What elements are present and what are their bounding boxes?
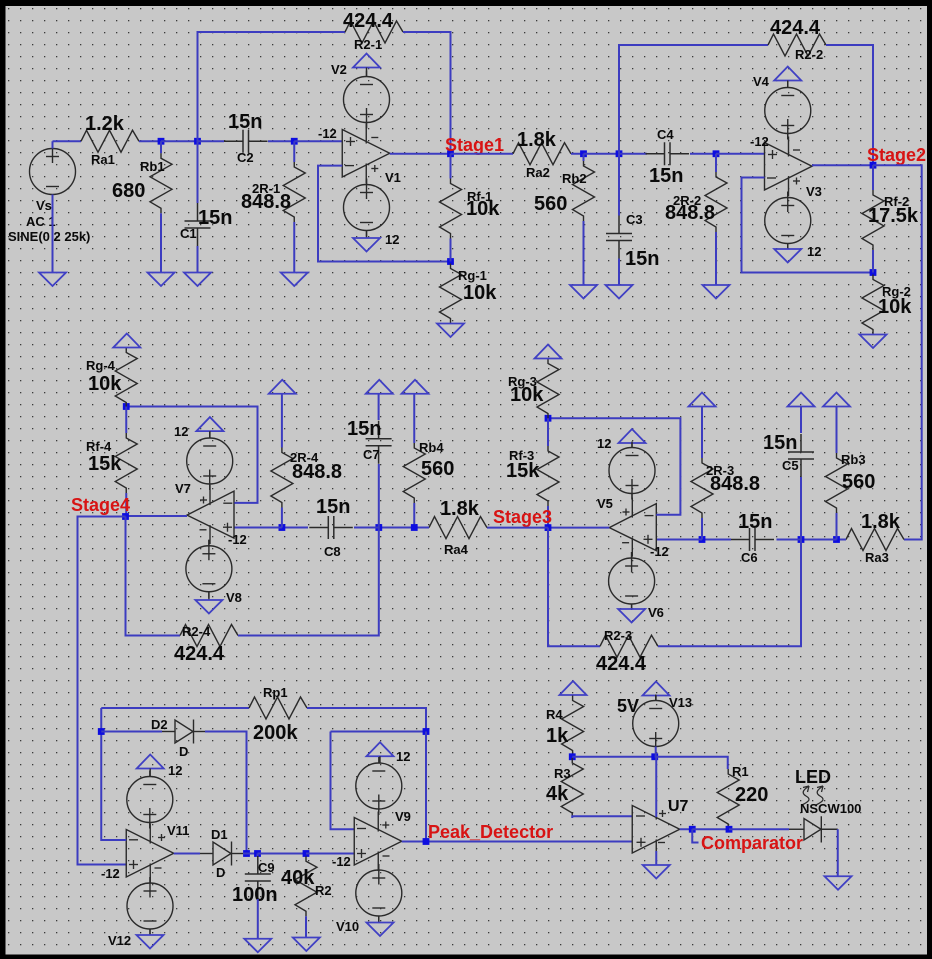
svg-text:12: 12 bbox=[807, 244, 821, 259]
wire 2R-4 node to op-amp U4 +in bbox=[234, 527, 282, 529]
svg-text:10k: 10k bbox=[878, 296, 912, 318]
svg-text:Ra2: Ra2 bbox=[526, 165, 550, 180]
op-amp U4 V- pin marker bbox=[200, 529, 207, 531]
junction R3/R4 node bbox=[569, 753, 576, 760]
wire Stage1 to Rf-1 bbox=[450, 154, 452, 179]
svg-text:220: 220 bbox=[735, 784, 768, 806]
op-amp U7 V+ pin marker bbox=[659, 813, 666, 815]
op-amp U7 +input marker bbox=[637, 841, 646, 843]
op-amp U4 V+ pin marker bbox=[200, 499, 207, 501]
svg-text:C8: C8 bbox=[324, 544, 341, 559]
diode D1 bbox=[200, 842, 243, 866]
svg-text:Rf-4: Rf-4 bbox=[86, 439, 112, 454]
power flag above Rg-3 bbox=[535, 345, 562, 359]
ground below C3 bbox=[606, 285, 633, 299]
svg-text:Stage3: Stage3 bbox=[493, 507, 552, 527]
resistor R2 bbox=[295, 856, 317, 916]
svg-text:Stage2: Stage2 bbox=[867, 145, 926, 165]
svg-text:424.4: 424.4 bbox=[343, 10, 394, 32]
svg-text:Stage1: Stage1 bbox=[445, 135, 504, 155]
wire R3 to U7 -in bbox=[572, 816, 632, 818]
svg-text:LED: LED bbox=[795, 767, 831, 787]
wire node to C3 bbox=[618, 154, 620, 216]
wire main to Rb4 bbox=[413, 503, 415, 528]
power flag above 2R-4 bbox=[269, 380, 296, 394]
ground below V8 bbox=[195, 600, 222, 614]
svg-text:15n: 15n bbox=[316, 496, 350, 518]
capacitor C7 bbox=[366, 421, 392, 464]
svg-text:Ra3: Ra3 bbox=[865, 550, 889, 565]
svg-text:V5: V5 bbox=[597, 496, 613, 511]
wire V7 top stub bbox=[209, 431, 211, 437]
wire feedback top run bbox=[331, 731, 427, 733]
voltage source V4 bbox=[765, 82, 811, 140]
svg-text:680: 680 bbox=[112, 180, 145, 202]
junction storage node (D2) bbox=[243, 850, 250, 857]
svg-text:Rb3: Rb3 bbox=[841, 452, 866, 467]
power flag above 2R-3 bbox=[689, 393, 716, 407]
power flag above Rg-4 bbox=[113, 334, 140, 348]
svg-text:15n: 15n bbox=[228, 111, 262, 133]
ground below V1 bbox=[353, 238, 380, 252]
wire V1 bottom stub bbox=[366, 231, 368, 239]
svg-text:NSCW100: NSCW100 bbox=[800, 801, 861, 816]
resistor Rp1 bbox=[249, 697, 307, 719]
resistor 2R-4 bbox=[271, 448, 293, 508]
svg-text:15n: 15n bbox=[198, 207, 232, 229]
svg-text:10k: 10k bbox=[88, 373, 122, 395]
wire V13 to node bbox=[655, 747, 657, 757]
wire Vs to Ra1 bbox=[53, 140, 82, 142]
op-amp U3 V- pin marker bbox=[622, 542, 629, 544]
op-amp U6 (peak detector output) bbox=[354, 812, 402, 872]
svg-text:1.8k: 1.8k bbox=[517, 129, 557, 151]
power flag above V2 bbox=[353, 54, 380, 68]
wire node up to 2R-3 bbox=[701, 518, 703, 540]
svg-text:848.8: 848.8 bbox=[710, 473, 760, 495]
power flag above V4 bbox=[774, 67, 801, 81]
svg-text:Stage4: Stage4 bbox=[71, 495, 130, 515]
wire node up to C5 bbox=[800, 477, 802, 540]
wire 2R-4 to power flag bbox=[281, 394, 283, 448]
wire node B up to R2-1 bbox=[198, 32, 346, 141]
junction Rb3 node bbox=[833, 536, 840, 543]
wire Stage3 down to R2-3 bbox=[548, 528, 600, 647]
wire U3 output to Stage3 node bbox=[548, 527, 609, 529]
wire U1 -in feedback loop bbox=[318, 166, 451, 262]
op-amp U6 V+ pin marker bbox=[382, 824, 389, 826]
svg-text:12: 12 bbox=[168, 763, 182, 778]
resistor Rg-3 bbox=[537, 359, 559, 419]
wire R2 node to U6 +in bbox=[306, 853, 354, 855]
svg-text:-12: -12 bbox=[228, 532, 247, 547]
wire V4 top stub bbox=[787, 81, 789, 89]
ground below R2 bbox=[293, 938, 320, 952]
junction D2 branch node bbox=[98, 728, 105, 735]
junction 2R-4 node bbox=[279, 524, 286, 531]
svg-text:15k: 15k bbox=[88, 453, 122, 475]
resistor Ra4 bbox=[429, 517, 487, 539]
svg-text:C1: C1 bbox=[180, 226, 197, 241]
svg-text:1.8k: 1.8k bbox=[861, 511, 901, 533]
svg-text:-12: -12 bbox=[750, 134, 769, 149]
resistor Rf-3 bbox=[537, 446, 559, 506]
wire R4 node to V13 node bbox=[572, 756, 655, 758]
wire Vs top lead bbox=[52, 141, 54, 148]
capacitor C8 bbox=[309, 516, 353, 539]
svg-text:D2: D2 bbox=[151, 717, 168, 732]
wire Stage2 to Rf-2 bbox=[872, 165, 874, 190]
svg-text:C9: C9 bbox=[258, 860, 275, 875]
resistor R3 bbox=[561, 758, 583, 818]
voltage source V5 bbox=[609, 442, 655, 500]
resistor Rb4 bbox=[403, 443, 425, 503]
svg-text:15n: 15n bbox=[625, 248, 659, 270]
resistor Rg-4 bbox=[115, 348, 137, 408]
svg-text:SINE(0 2 25k): SINE(0 2 25k) bbox=[8, 229, 90, 244]
wire D2 down to storage node bbox=[205, 732, 247, 854]
resistor Ra1 bbox=[81, 130, 139, 152]
voltage source V6 bbox=[609, 552, 655, 610]
wire Ra2 to Rb2 node bbox=[571, 153, 584, 155]
wire node to D2 bbox=[101, 731, 162, 733]
junction R2 node bbox=[303, 850, 310, 857]
wire U4 -in up to Rg-4 node bbox=[126, 407, 257, 503]
svg-text:848.8: 848.8 bbox=[292, 461, 342, 483]
wire node B to C2 bbox=[198, 140, 225, 142]
junction node A (Rb1 top) bbox=[158, 138, 165, 145]
svg-text:1.8k: 1.8k bbox=[440, 498, 480, 520]
op-amp U5 -input marker bbox=[129, 839, 138, 841]
power flag above V9 bbox=[367, 742, 394, 756]
svg-text:V1: V1 bbox=[385, 170, 401, 185]
voltage source V12 bbox=[127, 877, 173, 935]
svg-text:848.8: 848.8 bbox=[241, 191, 291, 213]
svg-text:424.4: 424.4 bbox=[770, 17, 821, 39]
ground below C9 bbox=[244, 939, 271, 953]
wire R2-2 to Stage2 node bbox=[826, 45, 873, 165]
wire D1 to C9 node bbox=[243, 853, 258, 855]
power flag above C7 bbox=[366, 380, 393, 394]
wire V12 bottom stub bbox=[149, 929, 151, 935]
wire V13 top stub bbox=[655, 696, 657, 701]
svg-text:560: 560 bbox=[421, 458, 454, 480]
wire C9 node down bbox=[257, 854, 259, 858]
wire net label stub bbox=[692, 829, 698, 842]
wire Rf-1 to node bbox=[450, 239, 452, 262]
wire U7 output bbox=[680, 828, 693, 830]
wire R2-3 up to C5 node bbox=[658, 540, 801, 647]
svg-text:V7: V7 bbox=[175, 481, 191, 496]
svg-text:C4: C4 bbox=[657, 127, 674, 142]
svg-text:Ra1: Ra1 bbox=[91, 152, 115, 167]
capacitor C2 bbox=[224, 130, 268, 153]
wire output to R1 node bbox=[692, 828, 729, 830]
resistor Rb2 bbox=[573, 161, 595, 221]
wire 2R-3 to power flag bbox=[701, 407, 703, 459]
svg-text:V10: V10 bbox=[336, 919, 359, 934]
op-amp U3 +input marker bbox=[644, 538, 653, 540]
wire feedback down to U6 -in bbox=[331, 732, 355, 830]
power flag above C5 bbox=[788, 393, 815, 407]
svg-text:R2-2: R2-2 bbox=[795, 47, 823, 62]
ground below C1 bbox=[184, 273, 211, 287]
op-amp U5 V- pin marker bbox=[155, 867, 162, 869]
wire Vs to ground bbox=[52, 195, 54, 273]
junction R1/LED node bbox=[726, 826, 733, 833]
svg-text:-12: -12 bbox=[101, 866, 120, 881]
op-amp U3 V+ pin marker bbox=[623, 511, 630, 513]
wire C3 to ground bbox=[618, 259, 620, 286]
resistor Rg-2 bbox=[862, 275, 884, 335]
wire U4 output to Stage4 node bbox=[126, 515, 188, 517]
wire V5 top stub bbox=[631, 443, 633, 448]
svg-text:R3: R3 bbox=[554, 766, 571, 781]
svg-text:Rg-4: Rg-4 bbox=[86, 358, 116, 373]
svg-text:AC 1: AC 1 bbox=[26, 214, 56, 229]
wire to Rb2 bbox=[583, 154, 585, 161]
voltage source V2 bbox=[344, 71, 390, 129]
wire node up to 2R-4 bbox=[281, 508, 283, 528]
wire Rb3 node to C5 node bbox=[801, 539, 837, 541]
wire C9 to ground bbox=[257, 899, 259, 939]
resistor Rg-1 bbox=[440, 264, 462, 324]
resistor 2R-2 bbox=[705, 172, 727, 232]
svg-text:V8: V8 bbox=[226, 590, 242, 605]
svg-text:D: D bbox=[216, 865, 225, 880]
junction C3/feedback node bbox=[616, 150, 623, 157]
wire V13 node to U7 V+ bbox=[655, 757, 657, 817]
ground below Rb1 bbox=[148, 273, 175, 287]
op-amp U7 -input marker bbox=[636, 815, 645, 817]
svg-text:848.8: 848.8 bbox=[665, 202, 715, 224]
junction Rg-4/Rf-4 node bbox=[123, 403, 130, 410]
wire node to 2R-2 bbox=[715, 154, 717, 172]
op-amp U5 V+ pin marker bbox=[158, 837, 165, 839]
wire U5 output to D1 bbox=[174, 853, 200, 855]
voltage source V9 bbox=[356, 757, 402, 815]
resistor R2-2 bbox=[768, 34, 826, 56]
junction C9 node bbox=[254, 850, 261, 857]
op-amp U3 (stage3) bbox=[609, 498, 656, 557]
wire U2 output to Stage2 node bbox=[812, 164, 873, 166]
diode D2 bbox=[162, 720, 205, 744]
wire V2 top stub bbox=[366, 68, 368, 78]
wire R2-4 up to C7 node bbox=[238, 528, 379, 636]
resistor R1 bbox=[717, 769, 739, 829]
voltage source V7 bbox=[187, 432, 233, 490]
wire V13 node to R1 bbox=[655, 757, 728, 769]
resistor R2-1 bbox=[345, 21, 403, 43]
junction Stage4 node bbox=[122, 513, 129, 520]
svg-text:12: 12 bbox=[385, 232, 399, 247]
resistor 2R-3 bbox=[691, 458, 713, 518]
ground below V6 bbox=[618, 609, 645, 623]
svg-text:10k: 10k bbox=[466, 198, 500, 220]
junction node C (2R-1 top) bbox=[291, 138, 298, 145]
op-amp U7 (comparator) bbox=[632, 800, 680, 860]
resistor Rf-2 bbox=[862, 190, 884, 250]
wire U2 -in feedback loop bbox=[742, 178, 874, 273]
capacitor C4 bbox=[646, 142, 690, 165]
wire Rf-3 to Stage3 node bbox=[547, 506, 549, 528]
svg-text:15n: 15n bbox=[738, 511, 772, 533]
svg-text:U7: U7 bbox=[668, 798, 689, 815]
wire Rb2 to ground bbox=[583, 221, 585, 285]
wire V10 bottom stub bbox=[378, 916, 380, 923]
junction Rb4 node bbox=[411, 524, 418, 531]
wire Stage4 down to R2-4 bbox=[126, 517, 181, 636]
wire C5 node to C6 bbox=[777, 539, 802, 541]
op-amp U2 V+ pin marker bbox=[793, 180, 800, 182]
ground below Rb2 bbox=[570, 285, 597, 299]
resistor Rf-4 bbox=[115, 433, 137, 493]
op-amp U2 (stage2) bbox=[765, 137, 813, 197]
junction 2R-3 node bbox=[699, 536, 706, 543]
wire node up to Rb3 bbox=[836, 513, 838, 540]
svg-text:17.5k: 17.5k bbox=[868, 205, 919, 227]
wire Stage1 to Ra2 bbox=[451, 153, 514, 155]
svg-text:10k: 10k bbox=[463, 282, 497, 304]
svg-text:R2: R2 bbox=[315, 883, 332, 898]
svg-text:C2: C2 bbox=[237, 150, 254, 165]
wire Stage4 node down to peak detector +in bbox=[78, 517, 127, 865]
op-amp U3 -input marker bbox=[645, 515, 654, 517]
wire to Rp1 bbox=[101, 707, 249, 709]
LED D3 bbox=[789, 816, 838, 842]
power flag above V5 bbox=[619, 429, 646, 443]
junction C5 node bbox=[798, 536, 805, 543]
wire C2 to node C bbox=[268, 140, 294, 142]
wire 2R-2 to ground bbox=[715, 232, 717, 285]
resistor R2-3 bbox=[600, 635, 658, 657]
junction Stage2 node bbox=[870, 162, 877, 169]
svg-text:5V: 5V bbox=[617, 696, 639, 716]
svg-text:15n: 15n bbox=[649, 165, 683, 187]
wire R1 to output node bbox=[727, 828, 730, 830]
resistor Rf-1 bbox=[440, 179, 462, 239]
capacitor C5 bbox=[788, 434, 814, 477]
op-amp U4 +input marker bbox=[223, 526, 232, 528]
svg-text:-12: -12 bbox=[650, 544, 669, 559]
wire C3 node to C4 bbox=[619, 153, 647, 155]
svg-text:40k: 40k bbox=[281, 867, 315, 889]
op-amp U7 V- pin marker bbox=[658, 842, 665, 844]
wire C1 to ground bbox=[197, 246, 199, 273]
svg-text:C5: C5 bbox=[782, 458, 799, 473]
svg-text:C6: C6 bbox=[741, 550, 758, 565]
svg-text:560: 560 bbox=[534, 193, 567, 215]
wire R2 to ground bbox=[305, 916, 307, 937]
voltage source V1 bbox=[344, 179, 390, 237]
svg-text:424.4: 424.4 bbox=[596, 653, 647, 675]
wire C7 to power flag bbox=[378, 394, 380, 420]
op-amp U1 +input marker bbox=[346, 141, 355, 143]
wire 2R-3 node to op-amp U3 +in bbox=[656, 539, 702, 541]
wire Rb1 to ground bbox=[160, 213, 162, 272]
wire C8 to 2R-4 node bbox=[282, 527, 308, 529]
op-amp U5 +input marker bbox=[129, 864, 138, 866]
svg-text:Vs: Vs bbox=[36, 198, 52, 213]
wire Ra4 to C7 node bbox=[379, 527, 429, 529]
svg-text:1.2k: 1.2k bbox=[85, 113, 125, 135]
wire Rp1/D2 riser to U5 -in bbox=[101, 708, 126, 840]
op-amp U1 -input marker bbox=[345, 165, 354, 167]
svg-text:V12: V12 bbox=[108, 933, 131, 948]
svg-text:V13: V13 bbox=[669, 695, 692, 710]
wire U6 output to comparator +in bbox=[402, 841, 633, 843]
ground below LED bbox=[825, 876, 852, 890]
op-amp U6 V- pin marker bbox=[383, 855, 390, 857]
wire U1 output to Stage1 node bbox=[390, 153, 451, 155]
power flag above V11 bbox=[137, 755, 164, 769]
svg-text:560: 560 bbox=[842, 471, 875, 493]
wire V8 bottom stub bbox=[208, 592, 210, 600]
power flag above V13 bbox=[643, 682, 670, 696]
svg-text:V6: V6 bbox=[648, 605, 664, 620]
op-amp U6 +input marker bbox=[357, 853, 366, 855]
resistor Ra2 bbox=[513, 143, 571, 165]
ground below U7 bbox=[643, 865, 670, 879]
op-amp U2 -input marker bbox=[767, 177, 776, 179]
op-amp U1 (stage1) bbox=[342, 124, 390, 184]
junction Rf-2/Rg-2 node bbox=[870, 269, 877, 276]
wire Rp1 to feedback node bbox=[307, 708, 426, 732]
junction Rg-3/Rf-3 node bbox=[545, 415, 552, 422]
svg-text:Rp1: Rp1 bbox=[263, 685, 288, 700]
ground below Rg-2 bbox=[860, 335, 887, 349]
svg-text:D1: D1 bbox=[211, 827, 228, 842]
capacitor C1 bbox=[185, 203, 211, 246]
wire node to op-amp U2 +in bbox=[716, 153, 765, 155]
svg-text:15k: 15k bbox=[506, 460, 540, 482]
resistor Rb3 bbox=[826, 453, 848, 513]
ground below 2R-2 bbox=[703, 285, 730, 299]
svg-text:R2-3: R2-3 bbox=[604, 628, 632, 643]
op-amp U2 +input marker bbox=[768, 154, 777, 156]
wire Rb4 to power flag bbox=[413, 394, 415, 443]
wire C9 node to R2 node bbox=[258, 853, 307, 855]
ground below 2R-1 bbox=[281, 273, 308, 287]
svg-text:Rb1: Rb1 bbox=[140, 159, 165, 174]
svg-text:V3: V3 bbox=[806, 184, 822, 199]
wire node up to C7 bbox=[378, 464, 380, 528]
wire node B to C1 bbox=[197, 141, 199, 203]
op-amp U2 V- pin marker bbox=[793, 149, 800, 151]
svg-text:Ra4: Ra4 bbox=[444, 542, 469, 557]
wire Stage2 node down right edge to Ra3 bbox=[873, 165, 922, 539]
svg-text:C7: C7 bbox=[363, 447, 380, 462]
wire to LED bbox=[729, 828, 789, 830]
ground below Vs bbox=[39, 273, 66, 287]
svg-text:R2-1: R2-1 bbox=[354, 37, 382, 52]
resistor R2-4 bbox=[180, 625, 238, 647]
ground below V12 bbox=[137, 935, 164, 949]
ground below Rg-1 bbox=[437, 324, 464, 338]
wire U3 -in up to Rg/Rf node bbox=[548, 418, 680, 514]
wire node to C8 bbox=[354, 527, 379, 529]
wire node up to R2-2 bbox=[619, 45, 768, 154]
junction V13 node bbox=[651, 753, 658, 760]
svg-text:12: 12 bbox=[396, 749, 410, 764]
svg-text:C3: C3 bbox=[626, 212, 643, 227]
op-amp U1 V+ pin marker bbox=[371, 168, 378, 170]
resistor Ra3 bbox=[846, 529, 904, 551]
wire 2R-1 to ground bbox=[293, 222, 295, 273]
wire U7 V- to ground bbox=[655, 851, 657, 865]
svg-text:V2: V2 bbox=[331, 62, 347, 77]
resistor Rb1 bbox=[150, 153, 172, 213]
